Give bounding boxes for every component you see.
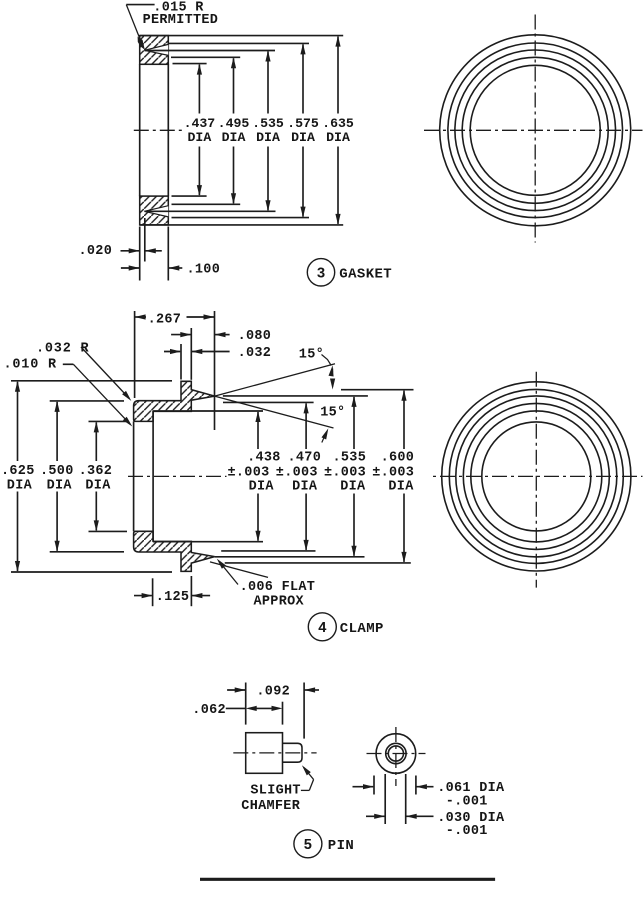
ext lines rib (clamp) xyxy=(180,344,182,380)
svg-text:5: 5 xyxy=(304,838,313,854)
svg-text:3: 3 xyxy=(317,266,326,282)
svg-text:15°: 15° xyxy=(320,405,345,420)
svg-text:CLAMP: CLAMP xyxy=(340,621,384,637)
svg-text:.437: .437 xyxy=(184,116,216,131)
svg-text:APPROX: APPROX xyxy=(254,594,305,609)
gasket V-groove bottom xyxy=(144,206,168,218)
svg-text:PIN: PIN xyxy=(328,838,354,854)
svg-text:PERMITTED: PERMITTED xyxy=(143,13,219,28)
15 deg taper line lower (inner cone) xyxy=(215,396,334,428)
svg-text:.438: .438 xyxy=(247,451,281,466)
dim .062 (pin body) xyxy=(282,702,284,725)
svg-text:SLIGHT: SLIGHT xyxy=(250,783,300,798)
svg-text:-.001: -.001 xyxy=(446,794,488,809)
svg-text:CHAMFER: CHAMFER xyxy=(241,799,300,814)
svg-text:.092: .092 xyxy=(256,685,290,700)
svg-text:4: 4 xyxy=(318,621,327,637)
clamp bore .470 lines xyxy=(223,401,314,403)
svg-text:DIA: DIA xyxy=(188,130,212,145)
svg-text:DIA: DIA xyxy=(340,480,366,495)
dim .032 (clamp) xyxy=(164,351,180,353)
clamp bore back face line xyxy=(152,411,154,541)
svg-text:±.003: ±.003 xyxy=(228,466,270,481)
svg-text:±.003: ±.003 xyxy=(324,466,366,481)
svg-text:.010 R: .010 R xyxy=(4,357,58,372)
svg-text:DIA: DIA xyxy=(292,480,318,495)
dim .080 (clamp) xyxy=(171,334,191,336)
svg-text:DIA: DIA xyxy=(222,130,246,145)
dia extension lines bottom (gasket) xyxy=(172,195,207,197)
clamp section outline bottom half (hatched) xyxy=(134,531,215,571)
dim .061 DIA (pin) xyxy=(373,776,375,795)
dim .125 (clamp) xyxy=(152,578,154,606)
svg-text:.470: .470 xyxy=(288,451,322,466)
gasket section view xyxy=(140,36,169,65)
gasket circular view centerlines xyxy=(424,129,643,131)
dim .092 (pin overall) xyxy=(245,683,247,725)
clamp circular view circles xyxy=(482,422,591,531)
pin end view circles xyxy=(376,734,416,774)
svg-text:±.003: ±.003 xyxy=(276,466,318,481)
dim .100 (gasket) xyxy=(167,227,169,281)
svg-text:DIA: DIA xyxy=(7,478,33,493)
dim .267 (clamp) xyxy=(134,311,136,398)
clamp tube OD .535 lines xyxy=(223,395,368,397)
svg-text:.635: .635 xyxy=(322,116,354,131)
dim .020 (gasket) xyxy=(139,227,141,281)
svg-text:.575: .575 xyxy=(287,116,319,131)
svg-text:DIA: DIA xyxy=(326,130,350,145)
gasket side edges xyxy=(139,64,141,196)
svg-text:.535: .535 xyxy=(333,451,367,466)
svg-text:DIA: DIA xyxy=(85,478,111,493)
pin nose with chamfer xyxy=(283,743,303,762)
svg-text:15°: 15° xyxy=(299,347,324,362)
dim .030 DIA (pin) xyxy=(384,774,386,824)
bottom border line xyxy=(200,878,495,881)
svg-text:±.003: ±.003 xyxy=(372,466,414,481)
svg-text:.500: .500 xyxy=(40,464,74,479)
leader .015 R xyxy=(126,4,154,6)
clamp section outline top half (hatched) xyxy=(134,381,215,421)
svg-text:DIA: DIA xyxy=(249,480,275,495)
clamp centerline xyxy=(128,475,643,477)
left dia dimension arrows (clamp) xyxy=(17,382,19,461)
gasket V-groove top xyxy=(144,44,168,55)
15 deg taper line bottom half xyxy=(210,562,268,578)
svg-text:DIA: DIA xyxy=(291,130,315,145)
gasket section centerline xyxy=(134,129,184,131)
15 deg taper line upper xyxy=(215,364,335,396)
gasket circular view circles xyxy=(470,65,600,195)
clamp bore .438 lines xyxy=(153,410,263,412)
right dia texts (clamp) xyxy=(227,464,285,478)
svg-text:.032 R: .032 R xyxy=(36,342,90,357)
svg-text:.032: .032 xyxy=(238,346,272,361)
dia dimension arrows (gasket) xyxy=(198,65,200,114)
svg-text:.625: .625 xyxy=(1,464,35,479)
svg-text:.267: .267 xyxy=(148,313,182,328)
svg-text:.100: .100 xyxy=(187,263,221,278)
svg-text:.125: .125 xyxy=(156,590,190,605)
svg-text:.062: .062 xyxy=(192,703,226,718)
balloon 3 GASKET xyxy=(307,259,334,286)
svg-text:.600: .600 xyxy=(381,451,415,466)
svg-text:DIA: DIA xyxy=(388,480,414,495)
svg-text:.362: .362 xyxy=(79,464,113,479)
pin body side view xyxy=(246,733,283,774)
svg-text:.080: .080 xyxy=(238,329,272,344)
svg-text:-.001: -.001 xyxy=(446,824,488,839)
balloon 5 PIN xyxy=(294,830,322,858)
svg-text:DIA: DIA xyxy=(256,130,280,145)
right dia dimension arrows (clamp) xyxy=(257,412,259,449)
clamp circular view vertical centerline xyxy=(535,372,537,588)
svg-text:GASKET: GASKET xyxy=(339,266,392,282)
left dia extension lines (clamp) xyxy=(11,380,172,382)
svg-text:DIA: DIA xyxy=(47,478,73,493)
svg-text:.535: .535 xyxy=(252,116,284,131)
clamp left face line xyxy=(133,421,135,531)
pin end view centerlines xyxy=(367,753,426,755)
clamp .600 reference lines xyxy=(341,389,414,391)
dia extension lines top (gasket) xyxy=(140,35,344,37)
balloon 4 CLAMP xyxy=(308,613,336,641)
pin centerline xyxy=(233,752,316,754)
svg-text:.006 FLAT: .006 FLAT xyxy=(240,580,316,595)
svg-text:.020: .020 xyxy=(79,244,113,259)
svg-text:.495: .495 xyxy=(218,116,250,131)
